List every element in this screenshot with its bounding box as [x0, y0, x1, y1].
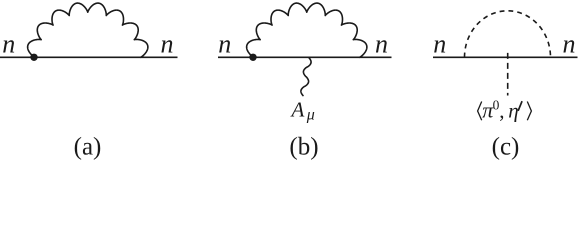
prime mark on eta	[518, 102, 521, 110]
fermion line (c)	[433, 56, 578, 58]
svg-text:(c): (c)	[492, 134, 520, 161]
svg-text:n: n	[563, 29, 576, 58]
vertex dot (a)	[30, 54, 37, 61]
svg-text:(a): (a)	[74, 134, 102, 161]
svg-text:n: n	[433, 29, 446, 58]
svg-text:η: η	[508, 99, 518, 123]
svg-text:n: n	[375, 29, 388, 58]
fermion line (b)	[218, 56, 392, 58]
white background	[0, 0, 581, 162]
dashed meson leg (c)	[507, 53, 509, 96]
external photon leg A_mu (b)	[301, 57, 311, 96]
svg-text:n: n	[2, 29, 15, 58]
photon loop arc (b)	[247, 3, 367, 57]
svg-text:n: n	[161, 29, 174, 58]
left angle bracket	[478, 102, 482, 121]
vertex dot (b)	[249, 54, 256, 61]
svg-text:n: n	[218, 29, 231, 58]
fermion line (a)	[0, 56, 178, 58]
svg-text:μ: μ	[306, 107, 315, 124]
svg-text:A: A	[290, 97, 305, 121]
photon loop arc (a)	[28, 3, 148, 57]
svg-text:(b): (b)	[289, 134, 318, 161]
dashed meson arc (c)	[465, 11, 551, 58]
right angle bracket	[527, 102, 531, 121]
svg-text:,: ,	[499, 99, 504, 123]
